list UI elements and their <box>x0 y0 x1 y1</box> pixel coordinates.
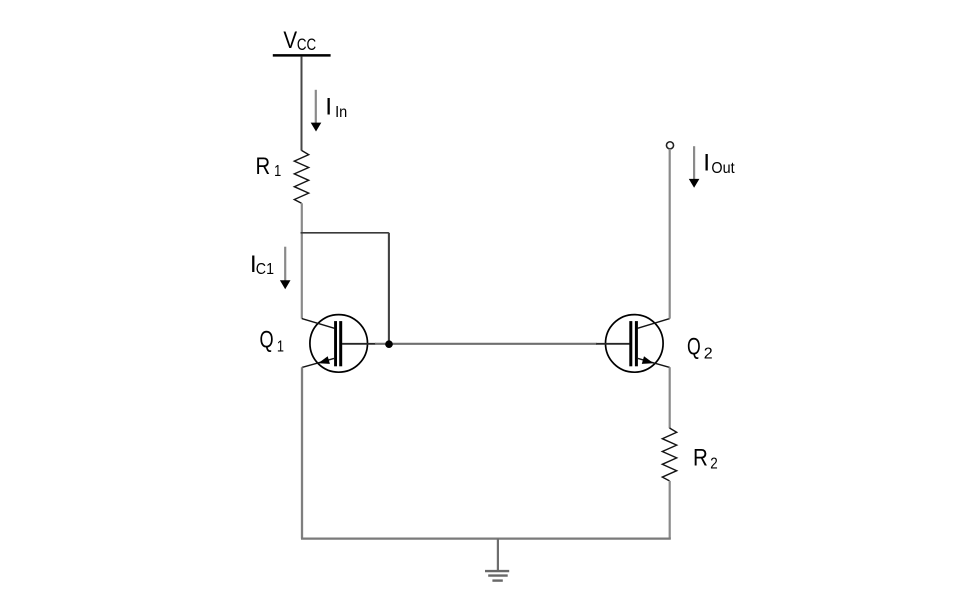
label I_In <box>325 94 347 121</box>
ground <box>485 539 509 581</box>
svg-text:C1: C1 <box>256 260 274 278</box>
wire branch to base (horizontal) <box>301 232 389 234</box>
wire base bus Q1 to Q2 <box>375 343 597 345</box>
svg-text:2: 2 <box>704 345 713 362</box>
svg-text:1: 1 <box>274 163 281 181</box>
svg-text:2: 2 <box>710 455 717 472</box>
wire Q2 emitter to R2 <box>669 367 671 428</box>
svg-text:CC: CC <box>297 36 316 55</box>
svg-text:Out: Out <box>711 159 735 177</box>
svg-text:R: R <box>693 444 708 471</box>
svg-text:Q: Q <box>687 333 701 361</box>
wire Q1 emitter down <box>301 367 303 538</box>
wire bottom rail <box>301 537 671 539</box>
label R2 <box>693 444 718 473</box>
resistor R1 <box>294 150 308 203</box>
svg-text:In: In <box>335 103 347 121</box>
label Vcc <box>283 27 316 55</box>
label I_Out <box>703 150 735 178</box>
wire terminal to Q2 collector <box>669 149 671 319</box>
Vcc supply bar <box>273 54 331 57</box>
wire R1 to Q1 collector <box>301 203 303 318</box>
label I_C1 <box>250 251 274 278</box>
current arrow I_Out <box>689 146 700 188</box>
resistor R2 <box>662 428 676 481</box>
svg-text:I: I <box>325 94 332 121</box>
label Q2 <box>687 333 713 363</box>
wire R2 to bottom <box>669 481 671 539</box>
label Q1 <box>260 325 285 356</box>
svg-text:I: I <box>703 150 710 177</box>
svg-text:V: V <box>283 27 297 54</box>
svg-text:R: R <box>256 152 271 179</box>
output terminal <box>666 142 673 149</box>
current arrow I_C1 <box>280 247 291 290</box>
label R1 <box>256 152 282 180</box>
wire branch to base (vertical) <box>388 233 390 344</box>
current arrow I_In <box>311 90 322 132</box>
node base junction <box>385 340 393 348</box>
transistor Q1 <box>302 315 376 373</box>
transistor Q2 <box>596 315 670 373</box>
wire Vcc to R1 <box>301 57 303 151</box>
svg-text:1: 1 <box>277 338 284 356</box>
svg-text:Q: Q <box>260 325 274 353</box>
